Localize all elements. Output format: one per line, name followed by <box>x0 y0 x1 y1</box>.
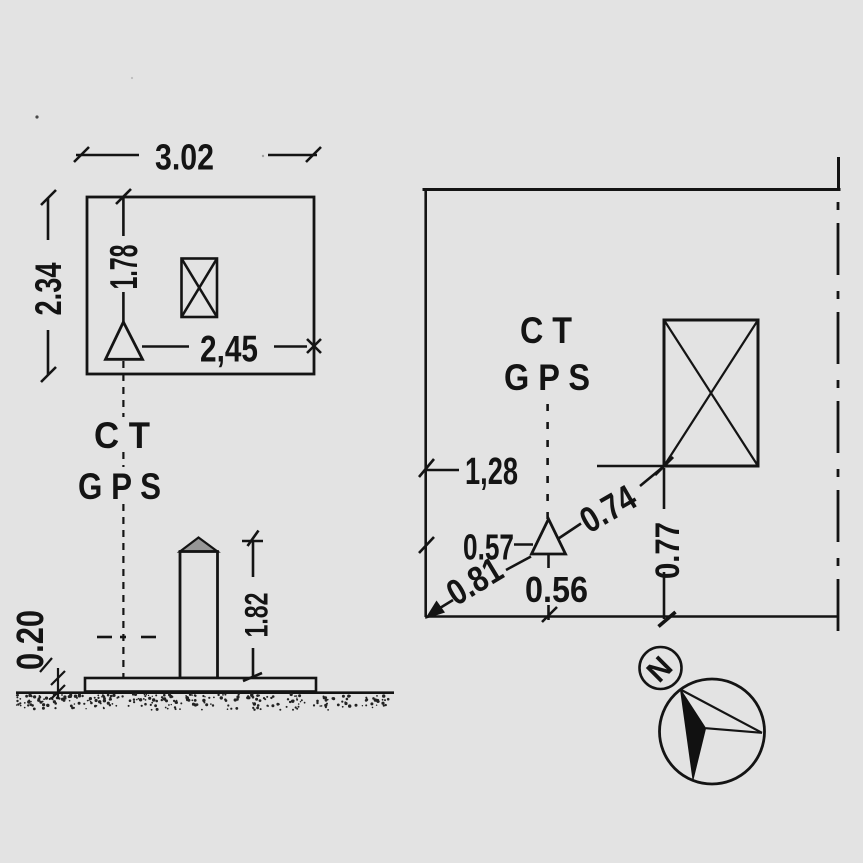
svg-text:C T: C T <box>94 415 150 456</box>
svg-text:3.02: 3.02 <box>155 137 214 178</box>
survey point triangle <box>106 322 143 359</box>
compass needle filled <box>681 690 706 780</box>
plan rectangle <box>87 197 314 374</box>
top boundary line <box>423 188 841 191</box>
dimension 3.02 line <box>74 147 321 162</box>
svg-text:2,45: 2,45 <box>200 329 258 370</box>
dimension 1.78 line <box>116 189 131 322</box>
dimension 2.34 line <box>41 190 56 382</box>
dimension 1.28 <box>419 459 459 477</box>
ground line <box>16 691 394 694</box>
svg-text:C T: C T <box>520 310 572 351</box>
extension line to building corner <box>597 465 664 468</box>
survey point triangle (right) <box>532 519 566 554</box>
centerline cross dash-dot <box>97 636 156 639</box>
dimension 0.74 diagonal line <box>559 524 582 539</box>
ground stipple <box>16 77 390 711</box>
svg-text:0.77: 0.77 <box>649 522 687 579</box>
bottom boundary line <box>425 615 837 618</box>
dimension 0.77 slash tick <box>659 612 676 627</box>
left boundary line <box>424 189 427 617</box>
svg-text:1,28: 1,28 <box>465 451 518 493</box>
building symbol (crossed rectangle) <box>182 259 218 318</box>
dimension 0.81 diagonal line <box>431 600 453 614</box>
dimension 0.20 <box>40 658 65 699</box>
svg-text:0.20: 0.20 <box>10 610 52 670</box>
corner tick star <box>655 457 673 475</box>
dashed leader (right) <box>546 404 549 519</box>
compass N circle <box>640 647 682 689</box>
monument pillar <box>180 552 218 679</box>
dimension 1.82 line <box>242 531 263 682</box>
compass needle open lines <box>681 690 763 733</box>
svg-text:G P S: G P S <box>504 357 590 398</box>
monument pillar cap <box>180 538 218 552</box>
svg-text:2.34: 2.34 <box>28 262 69 315</box>
svg-text:1.78: 1.78 <box>103 245 146 290</box>
dimension 0.56 <box>542 554 557 622</box>
dimension 0.57 <box>419 537 533 553</box>
dashed leader from triangle <box>122 361 124 682</box>
right boundary solid stub <box>837 157 840 191</box>
base slab <box>85 678 316 692</box>
dimension 0.81 arrowhead <box>425 601 445 620</box>
dimension 0.77 <box>663 468 666 619</box>
svg-text:0.56: 0.56 <box>525 569 588 610</box>
svg-text:1.82: 1.82 <box>239 593 275 638</box>
right boundary dash-dot axis <box>837 202 840 646</box>
compass main circle <box>660 679 765 784</box>
building crossed rectangle (right) <box>664 320 758 466</box>
svg-text:G P S: G P S <box>78 466 161 507</box>
dimension 2.45 line <box>142 339 321 353</box>
